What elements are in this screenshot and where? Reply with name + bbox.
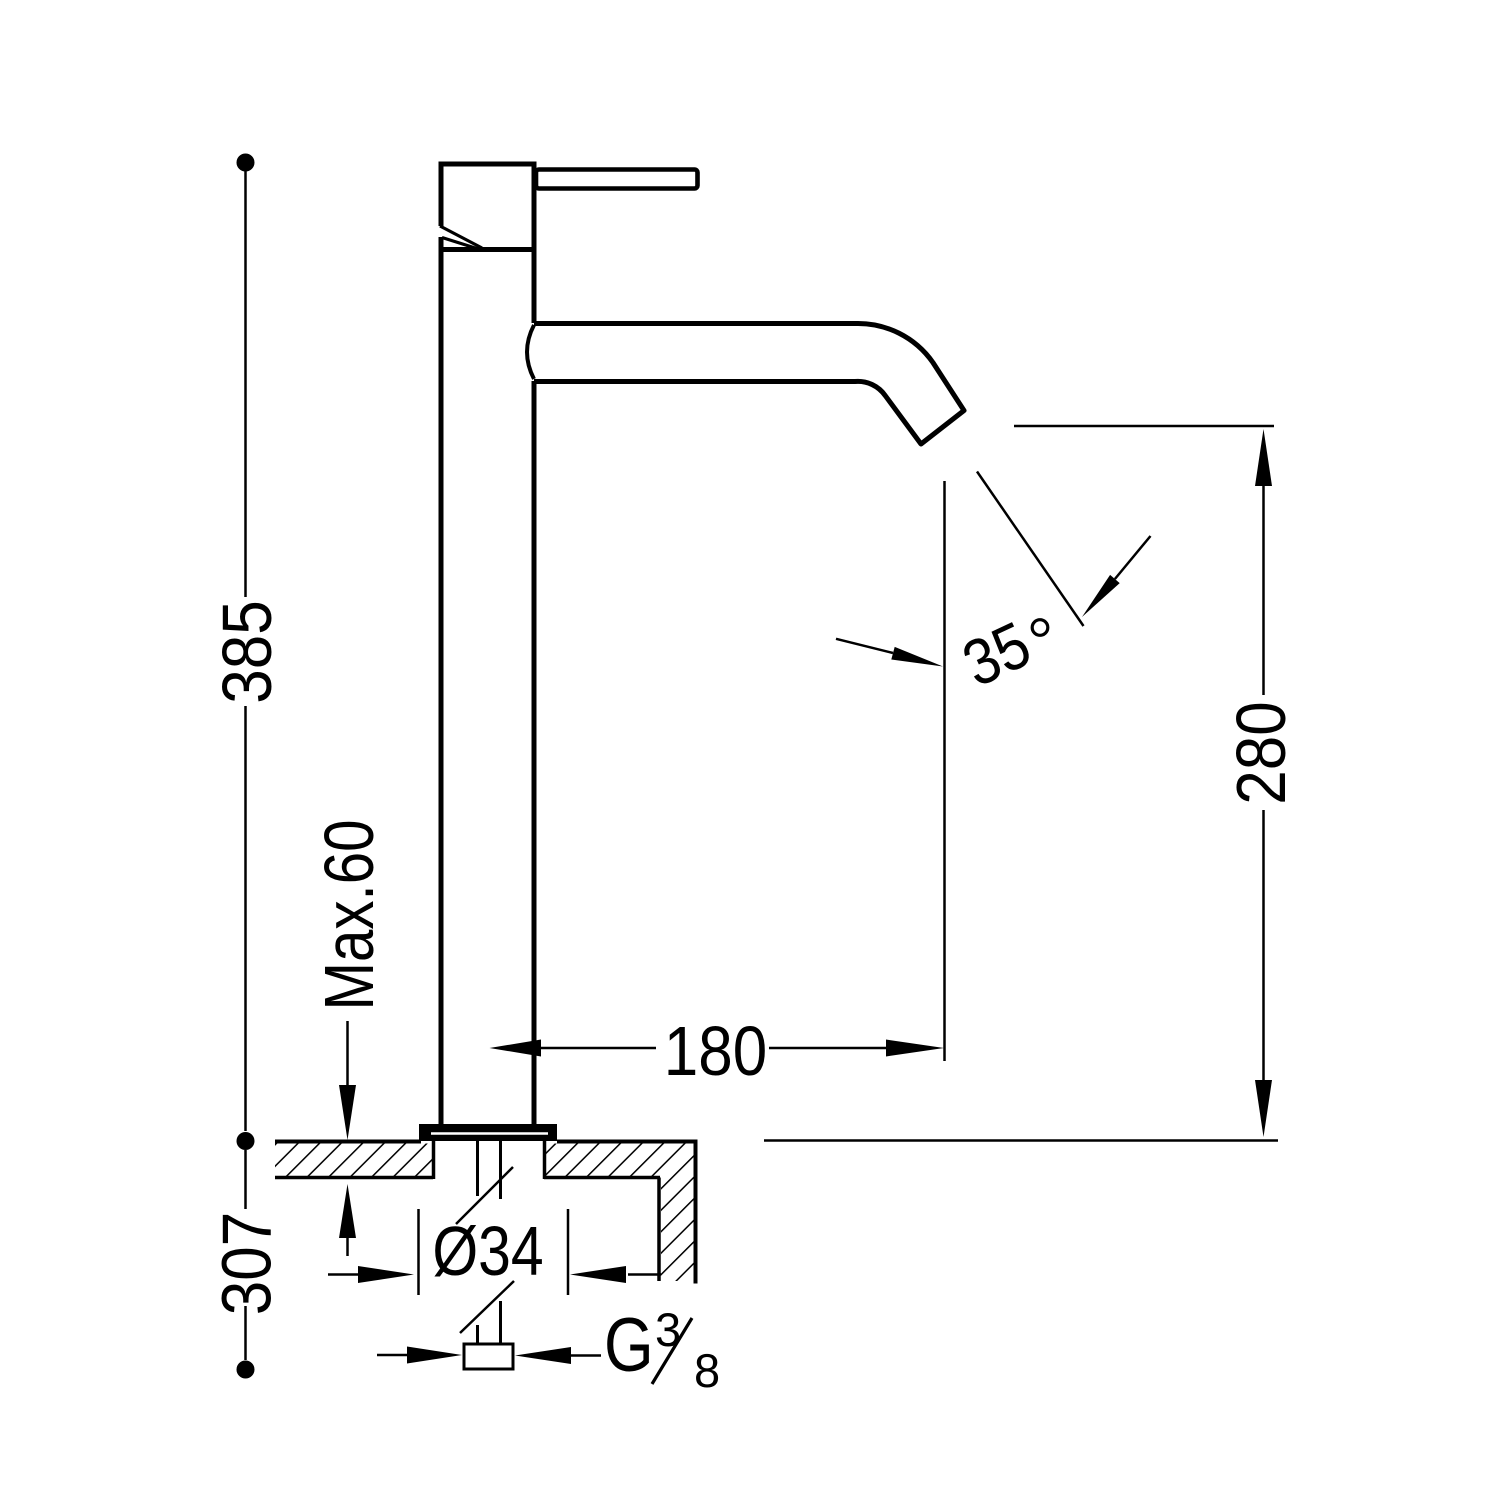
svg-text:180: 180	[664, 1012, 767, 1090]
svg-text:307: 307	[207, 1212, 285, 1315]
svg-text:Max.60: Max.60	[310, 819, 388, 1010]
35deg right leader arrow	[1115, 536, 1151, 579]
dim 307 bottom dot	[237, 1361, 255, 1379]
svg-text:280: 280	[1222, 701, 1300, 804]
dim 280 top arrow	[1255, 429, 1272, 486]
deck right slab outline	[544, 1140, 698, 1284]
spout left cap arc	[527, 325, 534, 379]
pipe break line lower	[460, 1281, 514, 1333]
dim 385 line	[244, 171, 247, 1131]
dim O34 right arrow	[628, 1273, 661, 1276]
deck left slab hatch	[275, 1144, 433, 1177]
dim G3/8 right arrow	[571, 1354, 601, 1357]
handle lever	[536, 170, 698, 189]
dim 180 left arrow	[490, 1040, 542, 1057]
head notch wedge	[437, 226, 482, 251]
dim Max.60 lower leader	[339, 1184, 356, 1238]
supply pipe	[478, 1141, 501, 1344]
dim 385 top dot	[237, 154, 255, 172]
dim 180 line	[541, 1047, 886, 1050]
svg-text:3: 3	[655, 1303, 681, 1356]
dim 307 line	[244, 1150, 247, 1360]
35deg left leader arrow	[836, 639, 893, 653]
dim 280 top reference line	[1014, 425, 1274, 428]
G3/8 text	[604, 1302, 720, 1397]
deck right slab hatch	[544, 1144, 694, 1282]
svg-text:Ø34: Ø34	[432, 1213, 543, 1291]
pipe break line upper	[456, 1167, 513, 1224]
dim Max.60 upper leader	[346, 1021, 349, 1085]
svg-text:8: 8	[694, 1344, 720, 1397]
cartridge head box	[439, 164, 537, 250]
base flange	[419, 1124, 557, 1141]
G3/8 connector square	[464, 1344, 513, 1369]
dim 280 bottom arrow	[1255, 1080, 1272, 1137]
deck left slab outline	[275, 1140, 434, 1179]
spout axis reference line	[943, 481, 946, 1061]
dim 280 line	[1262, 486, 1265, 1080]
dim G3/8 left arrow	[377, 1354, 407, 1357]
svg-text:385: 385	[208, 600, 286, 703]
dim 180 right arrow	[886, 1040, 944, 1057]
35deg extension line	[977, 472, 1084, 627]
dim 385 bottom dot	[237, 1132, 255, 1150]
faucet column body	[441, 164, 534, 1124]
dim 280 bottom reference line	[764, 1139, 1278, 1142]
dim O34 extension ticks	[419, 1209, 569, 1295]
dim O34 left arrow	[328, 1273, 358, 1276]
svg-text:G: G	[604, 1302, 654, 1388]
spout	[534, 323, 964, 444]
